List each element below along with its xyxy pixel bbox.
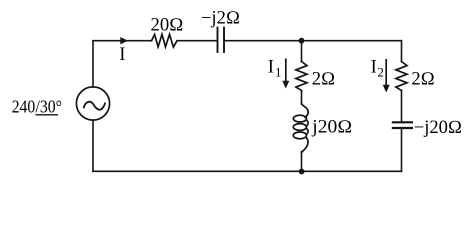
- wire L1 to bottom node: [301, 152, 303, 172]
- capacitor C1 -j2ohm left plate: [217, 28, 219, 53]
- current I1 arrowhead: [282, 81, 289, 89]
- wire node A to top-right corner: [302, 40, 402, 42]
- wire left vertical (top): [92, 41, 94, 87]
- capacitor C1 -j2ohm right plate: [223, 28, 225, 53]
- node A junction dot top: [299, 38, 305, 44]
- svg-text:240: 240: [12, 96, 36, 116]
- current I2 arrowhead: [383, 85, 390, 93]
- svg-text:20Ω: 20Ω: [151, 16, 184, 36]
- wire R3 to C2: [401, 91, 403, 122]
- capacitor C2 -j20ohm top plate: [393, 121, 412, 123]
- inductor L1 loop 1: [293, 115, 306, 122]
- resistor R3 2ohm zigzag: [396, 62, 407, 91]
- wire node A down into R2: [301, 41, 303, 62]
- svg-text:I: I: [371, 57, 377, 77]
- angle notation underline: [36, 114, 59, 116]
- inductor L1 loop 2: [293, 124, 306, 131]
- current I1 arrow shaft: [285, 59, 287, 82]
- svg-text:/30°: /30°: [36, 96, 63, 116]
- svg-text:I: I: [119, 45, 125, 65]
- wire left vertical (bottom): [92, 120, 94, 171]
- current I arrowhead on top wire: [120, 37, 128, 44]
- wire C1 to node A: [225, 40, 302, 42]
- svg-text:2Ω: 2Ω: [411, 69, 434, 89]
- inductor L1 arc between loop1 and loop2: [306, 120, 308, 126]
- wire top-left horizontal: [93, 40, 152, 42]
- inductor L1 loop 3: [293, 132, 306, 139]
- wire right vertical into R3: [401, 41, 403, 62]
- svg-text:2Ω: 2Ω: [312, 70, 335, 90]
- wire bottom horizontal: [93, 170, 402, 172]
- svg-text:1: 1: [275, 65, 282, 80]
- resistor R2 2ohm zigzag: [296, 62, 307, 91]
- inductor L1 j20ohm lead-in arc: [302, 104, 309, 118]
- svg-text:I: I: [268, 57, 274, 77]
- wire C2 to bottom-right corner: [401, 129, 403, 171]
- wire between R1 and C1: [177, 40, 217, 42]
- capacitor C2 -j20ohm bottom plate: [393, 127, 412, 129]
- source V1 sine wave: [84, 102, 105, 110]
- wire R2 to L1: [301, 91, 303, 105]
- svg-text:−j2Ω: −j2Ω: [201, 9, 240, 29]
- source V1 circle: [76, 87, 109, 120]
- resistor R1 20ohm zigzag: [152, 34, 178, 47]
- node B junction dot bottom: [299, 169, 305, 175]
- svg-text:2: 2: [377, 65, 384, 80]
- current I2 arrow shaft: [385, 59, 387, 86]
- svg-text:−j20Ω: −j20Ω: [414, 118, 462, 138]
- inductor L1 exit arc: [302, 137, 308, 152]
- svg-text:j20Ω: j20Ω: [311, 118, 352, 138]
- inductor L1 arc between loop2 and loop3: [306, 128, 308, 134]
